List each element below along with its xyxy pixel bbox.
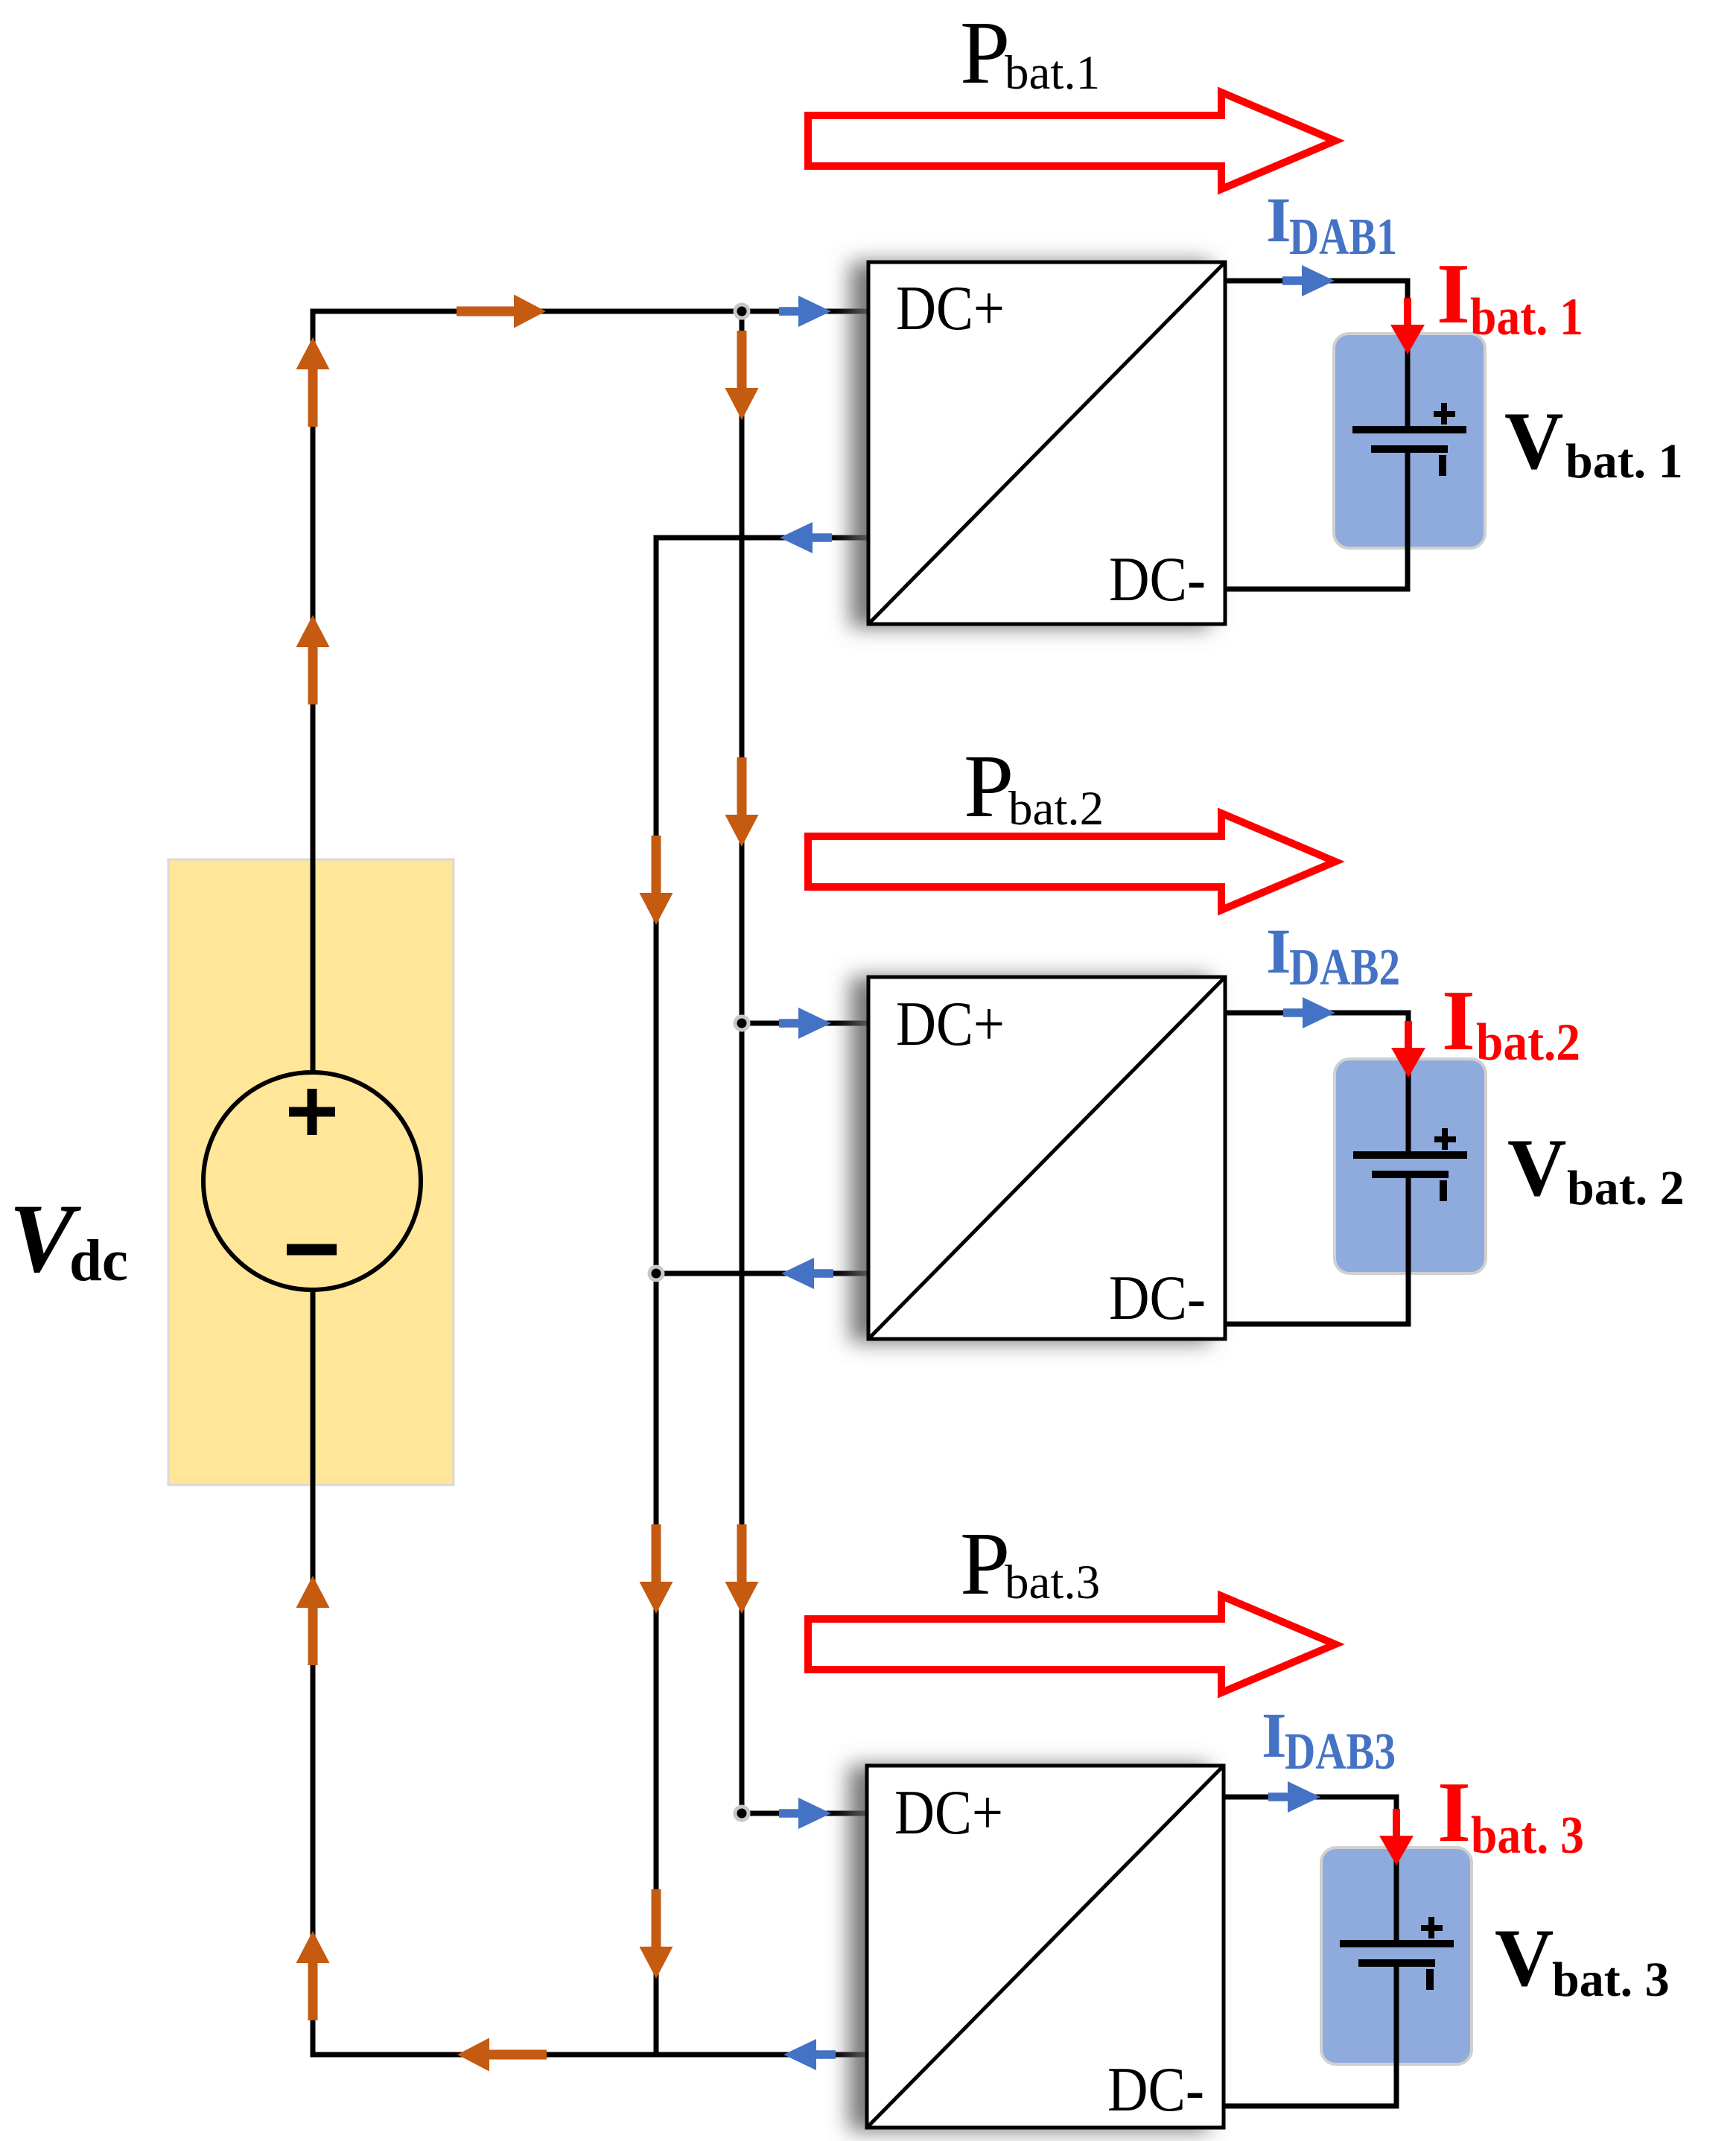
svg-text:DAB1: DAB1 [1289,209,1397,266]
svg-text:DC-: DC- [1109,1263,1206,1333]
battery B1 body [1334,334,1485,548]
svg-text:bat. 2: bat. 2 [1567,1161,1685,1215]
svg-text:bat.3: bat.3 [1005,1556,1100,1609]
current arrow IDAB1 [1282,265,1335,296]
current arrow Ibat.1 [1390,298,1425,354]
flow arrow left wire upper 2 [296,615,330,704]
junction node on top bus [735,305,748,318]
svg-text:I: I [1266,915,1291,987]
flow arrow DC+ bus 1 [725,331,759,420]
battery B3 body [1321,1848,1472,2064]
voltage source highlight box [168,859,454,1485]
power flow arrow Pbat.2 [808,813,1335,910]
svg-text:bat. 3: bat. 3 [1471,1807,1584,1865]
current arrow Ibat.2 [1391,1021,1425,1078]
flow arrow DC- bus 3 [640,1889,673,1979]
flow arrow left wire lower 2 [296,1931,330,2020]
battery B3 plates [1340,1917,1454,1990]
junction node DAB3 DC+ [735,1807,748,1820]
wire: DAB1 output to battery B1 positive [1225,281,1408,427]
power flow arrow Pbat.1 [808,92,1335,189]
svg-text:bat.2: bat.2 [1008,782,1104,836]
svg-text:I: I [1266,184,1291,255]
voltage source Vdc [203,1072,421,1290]
battery B2 body [1335,1059,1486,1273]
svg-text:DC+: DC+ [894,1778,1003,1848]
svg-text:DC+: DC+ [896,273,1005,343]
flow arrow DC- bus 1 [640,836,673,925]
svg-text:DAB2: DAB2 [1289,939,1400,996]
power flow arrow Pbat.3 [808,1596,1335,1693]
converter U1 DAB1 [868,262,1225,624]
wire: DAB3 output to battery B3 positive [1224,1797,1396,1941]
flow arrow DC- bus 2 [640,1524,673,1614]
svg-text:V: V [1507,1122,1566,1213]
current arrow into DAB1 DC+ [779,296,831,327]
current arrow out DAB3 DC- [783,2039,836,2070]
flow arrow left wire upper 1 [296,337,330,427]
svg-text:DC-: DC- [1109,544,1206,614]
junction node DAB2 DC- [649,1267,663,1280]
battery B1 plates [1352,403,1466,476]
wire: DC+ bus down to DAB3 DC+ [742,311,867,1813]
wire: DAB2 output to battery B2 positive [1225,1013,1408,1153]
svg-text:V: V [1495,1912,1554,2003]
svg-text:bat. 3: bat. 3 [1552,1953,1670,2007]
current arrow into DAB2 DC+ [779,1008,831,1039]
junction node DAB2 DC+ [735,1017,748,1030]
flow arrow left wire lower 1 [296,1576,330,1665]
flow arrow DC+ bus 3 [725,1524,759,1614]
svg-text:DC-: DC- [1107,2055,1204,2125]
svg-text:P: P [964,737,1014,836]
svg-text:DAB3: DAB3 [1285,1723,1396,1781]
svg-text:I: I [1442,973,1475,1068]
svg-text:bat.1: bat.1 [1005,46,1100,100]
battery B2 plates [1353,1128,1467,1201]
current arrow IDAB3 [1268,1781,1320,1813]
svg-text:DC+: DC+ [896,989,1005,1059]
flow arrow bottom bus [457,2038,547,2072]
wire: battery B1 negative to DAB1 DC- [1225,446,1408,589]
svg-text:bat. 1: bat. 1 [1470,288,1583,346]
wire: stub from DC- bus to DAB2 DC- [656,1271,868,1276]
current arrow out DAB1 DC- [780,522,832,553]
wire: Vdc bottom to bottom bus into DAB3 DC- [313,1288,867,2055]
flow arrow DC+ bus 2 [725,757,759,847]
current arrow Ibat.3 [1379,1809,1414,1865]
flow arrow on top bus [457,295,546,328]
current arrow IDAB2 [1283,997,1335,1028]
current arrow into DAB3 DC+ [779,1798,831,1829]
converter U2 DAB2 [868,977,1225,1339]
wire: battery B2 negative to DAB2 DC- [1225,1171,1408,1324]
wire: DC- bus from DAB1 DC- down to bottom bus [656,538,868,2055]
wire: battery B3 negative to DAB3 DC- [1224,1960,1396,2106]
svg-text:I: I [1437,1765,1471,1860]
current arrow out DAB2 DC- [781,1258,833,1289]
svg-text:bat.2: bat.2 [1476,1014,1580,1072]
wire: top bus from Vdc to DAB1 DC+ [313,311,868,1075]
svg-text:I: I [1262,1699,1286,1771]
svg-text:bat. 1: bat. 1 [1565,434,1683,489]
wire: stub to DAB2 DC+ [742,1021,868,1026]
svg-text:V: V [1504,395,1563,486]
svg-text:I: I [1437,246,1470,341]
svg-text:dc: dc [69,1229,128,1294]
svg-text:P: P [960,1514,1010,1614]
converter U3 DAB3 [867,1766,1224,2128]
svg-text:P: P [960,3,1010,103]
